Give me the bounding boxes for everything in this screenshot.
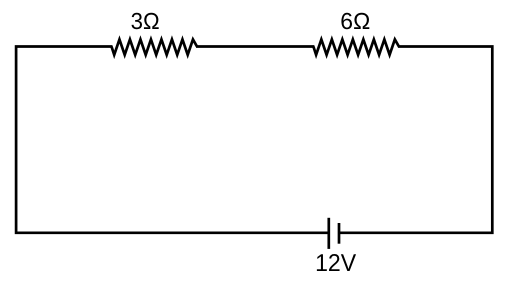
- wire: battery negative plate to bottom-left corner, up left side, top-left to resistor R1: [16, 47, 329, 233]
- svg-text:3Ω: 3Ω: [131, 8, 160, 34]
- resistor R1 (3 ohm) zigzag: [112, 39, 198, 54]
- resistor R2 (6 ohm) zigzag: [313, 39, 399, 54]
- wire: R1 to R2: [196, 45, 314, 48]
- svg-text:6Ω: 6Ω: [340, 8, 370, 34]
- svg-text:12V: 12V: [315, 250, 357, 277]
- wire: R2 to top-right corner, down right side, bottom to battery positive plate: [339, 47, 492, 233]
- battery B1 short (negative) plate: [338, 223, 341, 244]
- battery B1 long (positive) plate: [327, 218, 330, 249]
